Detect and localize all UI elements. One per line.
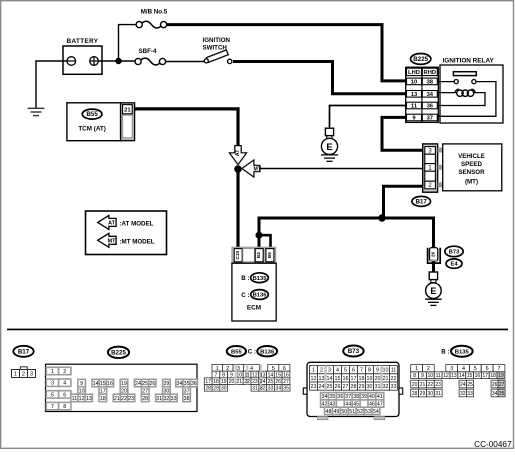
junction ECM branch — [256, 232, 263, 239]
svg-text:C :: C : — [241, 292, 249, 299]
svg-text:16: 16 — [475, 373, 481, 379]
connector view label B225 — [108, 347, 129, 358]
svg-text:21: 21 — [124, 108, 131, 114]
wire: speed sensor pin 2 down to node — [384, 186, 424, 218]
svg-text:IGNITION: IGNITION — [203, 37, 231, 44]
svg-text:24: 24 — [135, 381, 141, 387]
svg-text:B :: B : — [441, 349, 449, 356]
svg-text:50: 50 — [341, 409, 347, 415]
svg-text:16: 16 — [343, 376, 349, 382]
svg-text:6: 6 — [352, 368, 355, 374]
svg-text:4: 4 — [462, 366, 465, 372]
svg-text:10: 10 — [383, 368, 389, 374]
svg-text:27: 27 — [283, 379, 289, 385]
svg-text:E: E — [326, 142, 332, 153]
svg-text:B73: B73 — [449, 250, 460, 256]
AT model arrow — [229, 146, 246, 165]
svg-text:19: 19 — [367, 376, 373, 382]
connector label E4 — [446, 259, 462, 268]
svg-text:22: 22 — [428, 382, 434, 388]
svg-text:8: 8 — [368, 368, 371, 374]
svg-text:5: 5 — [272, 366, 275, 372]
svg-text:15: 15 — [335, 376, 341, 382]
svg-text:34: 34 — [492, 391, 498, 397]
svg-text:B17: B17 — [18, 348, 30, 355]
svg-text:12: 12 — [311, 376, 317, 382]
svg-text:11: 11 — [411, 104, 418, 110]
svg-text:34: 34 — [176, 381, 182, 387]
svg-text:25: 25 — [327, 384, 333, 390]
svg-text::MT MODEL: :MT MODEL — [120, 238, 155, 245]
svg-text:4: 4 — [336, 368, 339, 374]
svg-text:28: 28 — [142, 396, 148, 402]
svg-text:8: 8 — [63, 404, 66, 410]
svg-text:AT: AT — [108, 221, 115, 227]
relay coil — [437, 92, 456, 94]
fuse SBF-4 — [141, 58, 160, 65]
svg-text:22: 22 — [121, 396, 127, 402]
svg-text:11: 11 — [391, 368, 397, 374]
svg-text:20: 20 — [412, 382, 418, 388]
svg-text:32: 32 — [260, 386, 266, 392]
svg-text:B55: B55 — [86, 111, 98, 118]
wire: TCM pin 21 to AT arrow — [135, 109, 238, 148]
svg-text:11: 11 — [72, 396, 78, 402]
svg-text:30: 30 — [428, 391, 434, 397]
svg-text:38: 38 — [184, 396, 190, 402]
svg-text:CC-00467: CC-00467 — [474, 440, 512, 449]
connector view label B73 — [343, 346, 363, 357]
B73 grid top — [310, 366, 318, 374]
svg-text:6: 6 — [283, 366, 286, 372]
svg-text:21: 21 — [114, 396, 120, 402]
svg-text:49: 49 — [333, 409, 339, 415]
svg-text:10: 10 — [428, 373, 434, 379]
svg-text:31: 31 — [375, 384, 381, 390]
svg-text:B225: B225 — [111, 349, 126, 356]
wire: battery negative to ground — [36, 61, 67, 108]
svg-text:22: 22 — [391, 376, 397, 382]
ECM connector strip — [232, 247, 276, 263]
connector view label B135 — [451, 346, 473, 357]
svg-text:52: 52 — [357, 409, 363, 415]
svg-text:26: 26 — [431, 251, 436, 257]
junction at battery positive — [115, 58, 121, 64]
svg-text:31: 31 — [156, 396, 162, 402]
svg-text:18: 18 — [490, 373, 496, 379]
svg-text:14: 14 — [268, 372, 274, 378]
svg-text:B225: B225 — [413, 56, 428, 63]
svg-text:8: 8 — [222, 372, 225, 378]
svg-text:27: 27 — [499, 382, 505, 388]
svg-text:1: 1 — [14, 371, 17, 377]
svg-text:23: 23 — [252, 379, 258, 385]
svg-text:9: 9 — [230, 372, 233, 378]
svg-text:5: 5 — [474, 366, 477, 372]
connector view label B136 — [257, 346, 277, 356]
svg-text:48: 48 — [326, 409, 332, 415]
svg-text:39: 39 — [361, 394, 367, 400]
svg-text:24: 24 — [319, 384, 325, 390]
svg-text:3: 3 — [237, 366, 240, 372]
svg-text:C :: C : — [248, 349, 256, 356]
svg-text:21: 21 — [237, 379, 243, 385]
svg-text:E4: E4 — [450, 262, 458, 268]
svg-text:4: 4 — [250, 366, 253, 372]
svg-text:26: 26 — [492, 382, 498, 388]
svg-text:11: 11 — [244, 372, 249, 378]
svg-text:B136: B136 — [253, 293, 268, 299]
svg-text:1: 1 — [51, 369, 54, 375]
svg-text:28: 28 — [412, 391, 418, 397]
wire: SBF-4 to ignition switch — [165, 61, 205, 63]
svg-text:24: 24 — [460, 382, 466, 388]
svg-text:31: 31 — [252, 386, 258, 392]
wire: fuse M/B No.5 output to relay pin 10 — [167, 25, 407, 81]
connector label B55 — [82, 109, 102, 119]
wire: relay pin 9 to speed sensor pin 3 — [382, 117, 423, 150]
pin 21 — [123, 115, 133, 138]
svg-text:20: 20 — [375, 376, 381, 382]
svg-text:8: 8 — [413, 373, 416, 379]
connector label B225 — [411, 54, 431, 65]
svg-text:26: 26 — [335, 384, 341, 390]
svg-text:35: 35 — [283, 386, 289, 392]
svg-text:B136: B136 — [260, 349, 275, 355]
connector view B73 housing — [307, 362, 399, 416]
svg-text:VEHICLE: VEHICLE — [458, 153, 485, 160]
ECM box — [232, 263, 276, 321]
svg-text::AT MODEL: :AT MODEL — [120, 220, 154, 227]
TCM (AT) unit B55 — [67, 103, 121, 141]
svg-text:5: 5 — [344, 368, 347, 374]
svg-text:36: 36 — [337, 394, 343, 400]
svg-text:14: 14 — [327, 376, 333, 382]
svg-text:27: 27 — [343, 384, 349, 390]
pin C10 — [234, 249, 242, 262]
svg-text:25: 25 — [268, 379, 274, 385]
svg-text:3: 3 — [30, 371, 33, 377]
svg-text:33: 33 — [171, 396, 177, 402]
svg-text:34: 34 — [427, 92, 434, 98]
svg-text:13: 13 — [86, 396, 92, 402]
legend MT arrow — [98, 233, 116, 247]
svg-text:SPEED: SPEED — [461, 161, 483, 168]
svg-text:36: 36 — [191, 381, 197, 387]
connector view label B55 — [227, 346, 246, 356]
svg-text:TCM (AT): TCM (AT) — [78, 125, 106, 132]
connector view B225 — [46, 364, 198, 411]
svg-text:51: 51 — [349, 409, 355, 415]
svg-text:14: 14 — [93, 381, 99, 387]
svg-text:SENSOR: SENSOR — [458, 169, 485, 176]
svg-text:B135: B135 — [253, 276, 268, 282]
wire: ignition switch output to relay pin 13 — [233, 62, 406, 94]
svg-text:RHD: RHD — [424, 70, 437, 76]
wire: MT arrow to speed sensor pin 1 — [260, 168, 424, 170]
legend box — [86, 211, 167, 255]
svg-text:21: 21 — [383, 376, 389, 382]
ignition switch SW — [206, 50, 228, 63]
ground E (ignition relay) — [325, 128, 333, 135]
svg-text:ECM: ECM — [247, 305, 261, 312]
svg-text:B17: B17 — [416, 199, 428, 206]
svg-text:18: 18 — [100, 396, 106, 402]
connector view B55/B136 grid — [212, 365, 223, 372]
svg-text:24: 24 — [260, 379, 266, 385]
svg-text:29: 29 — [420, 391, 426, 397]
svg-text:E: E — [430, 286, 436, 296]
svg-text:31: 31 — [435, 391, 441, 397]
svg-text:18: 18 — [213, 379, 219, 385]
svg-text:53: 53 — [365, 409, 371, 415]
fuse M/B No.5 — [142, 21, 161, 28]
svg-text:13: 13 — [260, 372, 266, 378]
svg-text:C10: C10 — [235, 250, 241, 259]
svg-text:7: 7 — [215, 372, 218, 378]
wire: through E4 connector to ground — [432, 261, 435, 273]
wire: relay pin 11 to ground E — [330, 106, 407, 129]
svg-text:11: 11 — [436, 373, 441, 379]
svg-text:33: 33 — [467, 391, 473, 397]
svg-text:30: 30 — [221, 386, 227, 392]
svg-text:20: 20 — [229, 379, 235, 385]
svg-text:IGNITION RELAY: IGNITION RELAY — [443, 58, 495, 65]
svg-text:(MT): (MT) — [465, 179, 478, 186]
svg-text:26: 26 — [275, 379, 281, 385]
ignition relay connector table B225 — [406, 67, 439, 122]
svg-text:3: 3 — [450, 366, 453, 372]
connector label B17 — [412, 196, 431, 206]
svg-text:2: 2 — [320, 368, 323, 374]
svg-text:16: 16 — [283, 372, 289, 378]
connector B73/E4 pass-through — [428, 248, 441, 263]
svg-text:13: 13 — [319, 376, 325, 382]
svg-text:13: 13 — [451, 373, 457, 379]
svg-text:17: 17 — [351, 376, 357, 382]
connector view B17 pins — [20, 367, 27, 370]
svg-text:10: 10 — [411, 80, 417, 86]
svg-text:23: 23 — [128, 396, 134, 402]
svg-text:1: 1 — [415, 366, 418, 372]
svg-text:MT: MT — [253, 167, 261, 173]
junction AT/MT — [234, 165, 242, 173]
svg-text:26: 26 — [149, 381, 155, 387]
svg-text:38: 38 — [427, 80, 434, 86]
svg-text:14: 14 — [459, 373, 465, 379]
svg-text:22: 22 — [244, 379, 250, 385]
TCM connector strip — [121, 103, 135, 141]
svg-text:32: 32 — [163, 396, 169, 402]
svg-text:17: 17 — [205, 379, 211, 385]
wire: battery positive to SBF-4 — [98, 60, 135, 62]
svg-text:2: 2 — [63, 369, 66, 375]
svg-text:9: 9 — [376, 368, 379, 374]
svg-text:2: 2 — [226, 366, 229, 372]
svg-text:5: 5 — [51, 392, 54, 398]
svg-text:10: 10 — [236, 372, 242, 378]
relay contact — [437, 81, 454, 83]
svg-text:B6: B6 — [267, 252, 273, 258]
pin B6 — [266, 249, 274, 262]
svg-text:B55: B55 — [231, 349, 243, 355]
svg-text:6: 6 — [63, 392, 66, 398]
svg-text:32: 32 — [460, 391, 466, 397]
svg-text:23: 23 — [435, 382, 441, 388]
svg-text:12: 12 — [79, 396, 85, 402]
svg-text:7: 7 — [497, 366, 500, 372]
svg-text:12: 12 — [252, 372, 258, 378]
wire: branch to ECM pin B2 — [258, 235, 261, 248]
svg-text:15: 15 — [275, 372, 281, 378]
svg-text:9: 9 — [421, 373, 424, 379]
svg-text:29: 29 — [359, 384, 365, 390]
svg-text:32: 32 — [383, 384, 389, 390]
svg-text:28: 28 — [205, 386, 211, 392]
svg-text:4: 4 — [63, 381, 66, 387]
svg-text:37: 37 — [427, 116, 433, 122]
svg-text:SBF-4: SBF-4 — [139, 48, 157, 55]
B73 grid bottom — [321, 393, 329, 400]
separator line — [7, 329, 508, 331]
pin B2 — [255, 249, 263, 262]
svg-text:19: 19 — [498, 373, 504, 379]
svg-text:35: 35 — [499, 391, 505, 397]
svg-text:29: 29 — [213, 386, 219, 392]
svg-text:18: 18 — [359, 376, 365, 382]
connector view label B17 — [13, 346, 33, 357]
svg-text:30: 30 — [367, 384, 373, 390]
svg-text:1: 1 — [312, 368, 315, 374]
svg-text:33: 33 — [391, 384, 397, 390]
legend AT arrow — [98, 215, 116, 229]
battery B1 — [63, 46, 102, 74]
svg-text:LHD: LHD — [408, 70, 420, 76]
svg-text:1: 1 — [216, 366, 219, 372]
svg-text:28: 28 — [351, 384, 357, 390]
wire: junction to ECM pin C10 — [236, 166, 239, 248]
svg-text:13: 13 — [411, 92, 418, 98]
ground E (E4) — [426, 283, 442, 299]
wire: junction up to fuse M/B No.5 — [119, 25, 137, 61]
svg-text:2: 2 — [427, 366, 430, 372]
svg-text:2: 2 — [22, 371, 25, 377]
svg-text:15: 15 — [467, 373, 473, 379]
svg-text:6: 6 — [486, 366, 489, 372]
svg-text:7: 7 — [360, 368, 363, 374]
svg-text:54: 54 — [373, 409, 379, 415]
svg-text:B73: B73 — [348, 348, 360, 355]
svg-text:17: 17 — [482, 373, 488, 379]
ignition relay box — [440, 65, 503, 123]
svg-text:36: 36 — [427, 104, 434, 110]
svg-text:AT: AT — [235, 149, 241, 156]
svg-text:33: 33 — [268, 386, 274, 392]
sensor pin stubs — [438, 148, 443, 153]
svg-text:12: 12 — [443, 373, 449, 379]
svg-text:B :: B : — [241, 275, 249, 282]
svg-text:16: 16 — [107, 381, 113, 387]
svg-text:MT: MT — [108, 239, 116, 245]
svg-text:BATTERY: BATTERY — [67, 38, 99, 45]
svg-text:3: 3 — [51, 381, 54, 387]
junction node to B73 — [378, 214, 385, 221]
connector label B73 — [445, 246, 463, 256]
MT model arrow — [242, 160, 260, 177]
svg-text:21: 21 — [420, 382, 426, 388]
speed sensor connector B17 — [423, 144, 438, 192]
svg-text:B135: B135 — [455, 349, 470, 355]
svg-text:34: 34 — [276, 386, 282, 392]
svg-text:7: 7 — [51, 404, 54, 410]
vehicle speed sensor box — [443, 144, 502, 191]
ground E4 square — [429, 272, 437, 280]
svg-text:23: 23 — [311, 384, 317, 390]
ground (battery) — [28, 108, 45, 115]
svg-text:B2: B2 — [256, 252, 262, 258]
svg-text:3: 3 — [328, 368, 331, 374]
svg-text:25: 25 — [467, 382, 473, 388]
svg-text:M/B No.5: M/B No.5 — [141, 9, 168, 16]
svg-text:19: 19 — [221, 379, 227, 385]
wire: branch to ECM pin B6 — [258, 235, 271, 248]
wire: node line to ECM and to B73 connector — [259, 218, 434, 248]
connector view B135 grid — [497, 372, 505, 397]
